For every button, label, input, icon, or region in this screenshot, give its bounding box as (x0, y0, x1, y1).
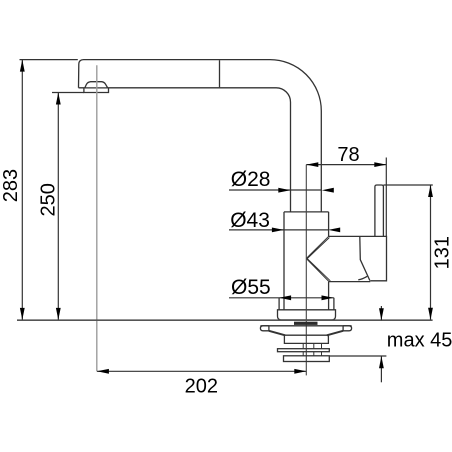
svg-text:202: 202 (185, 376, 218, 398)
svg-text:78: 78 (337, 144, 359, 166)
svg-text:250: 250 (38, 183, 60, 216)
svg-text:283: 283 (0, 169, 22, 202)
svg-text:max 45: max 45 (387, 330, 452, 352)
svg-text:Ø55: Ø55 (231, 276, 271, 299)
svg-text:Ø43: Ø43 (230, 209, 270, 232)
svg-text:Ø28: Ø28 (231, 168, 271, 191)
svg-text:131: 131 (431, 236, 452, 269)
